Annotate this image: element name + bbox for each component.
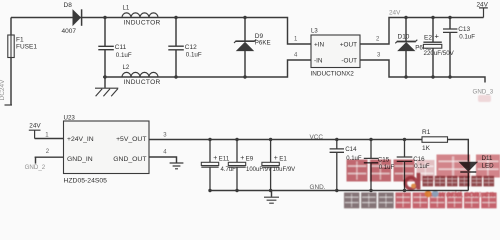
- svg-text:U23: U23: [64, 115, 76, 122]
- svg-text:0.1uF: 0.1uF: [186, 51, 202, 58]
- svg-text:+: +: [240, 155, 244, 162]
- svg-text:world.com.cn: world.com.cn: [439, 189, 494, 199]
- svg-text:E2: E2: [424, 34, 432, 41]
- capacitor C14 0.1uF: [336, 140, 338, 191]
- wire: stub to power ground: [104, 77, 106, 88]
- svg-text:L2: L2: [123, 65, 130, 71]
- junction: [174, 75, 177, 78]
- svg-text:+IN: +IN: [314, 41, 325, 48]
- svg-text:GND_OUT: GND_OUT: [113, 156, 146, 163]
- wire: D9 anode leg: [244, 51, 246, 77]
- diode D8 4007: [73, 10, 81, 26]
- DC-DC module U23 HZD05-24S05: [64, 121, 150, 174]
- svg-text:D10: D10: [398, 34, 410, 41]
- svg-text:INDUCTOR: INDUCTOR: [124, 20, 161, 27]
- wire: E2 lower leg: [432, 48, 434, 77]
- svg-text:INDUCTOR: INDUCTOR: [124, 79, 161, 86]
- svg-text:1K: 1K: [422, 145, 431, 152]
- junction: [174, 16, 177, 19]
- capacitor C16 0.1uF: [404, 140, 406, 191]
- svg-text:E11: E11: [219, 155, 230, 162]
- wire: bottom return rail to filter -IN: [103, 60, 311, 77]
- wire: U23 pin 4 to earth: [149, 157, 177, 163]
- svg-text:10uF/9V: 10uF/9V: [273, 167, 296, 173]
- svg-text:-OUT: -OUT: [341, 57, 357, 64]
- filter module L3 INDUCTIONX2: [311, 35, 360, 68]
- svg-text:4.7uF: 4.7uF: [221, 167, 237, 173]
- capacitor C13 0.1uF: [443, 29, 457, 32]
- wire: input drop to fuse: [10, 18, 12, 36]
- junction: [431, 16, 434, 19]
- wire: LED to GND rail: [467, 173, 469, 191]
- junction: [404, 75, 407, 78]
- svg-text:24V: 24V: [477, 2, 489, 9]
- wire: C13 lower leg: [449, 33, 451, 77]
- junction: [243, 75, 246, 78]
- junction: [404, 16, 407, 19]
- svg-text:L3: L3: [311, 28, 318, 34]
- wire: GND_2 stub: [35, 157, 37, 163]
- svg-text:R1: R1: [422, 129, 431, 136]
- wire: stub to earth: [271, 191, 273, 197]
- svg-text:INDUCTIONX2: INDUCTIONX2: [311, 71, 355, 78]
- svg-text:C12: C12: [185, 44, 197, 51]
- junction: [448, 75, 451, 78]
- wire: D10 cathode leg: [405, 18, 407, 42]
- svg-text:VCC: VCC: [310, 134, 324, 141]
- wire: D9 cathode leg: [244, 18, 246, 42]
- svg-text:24V: 24V: [29, 122, 41, 129]
- svg-text:+: +: [274, 155, 278, 162]
- svg-text:GND.: GND.: [310, 184, 326, 191]
- svg-text:C11: C11: [115, 44, 127, 51]
- junction: [243, 16, 246, 19]
- wire: C11 upper leg: [104, 18, 106, 47]
- svg-text:-IN: -IN: [314, 57, 323, 64]
- svg-text:100uF/9V: 100uF/9V: [246, 167, 272, 173]
- wire: C12 lower leg: [175, 50, 177, 77]
- wire: C12 upper leg: [175, 18, 177, 47]
- wire: filter +OUT to 24V port: [360, 18, 484, 45]
- wire: filter -OUT to GND_3: [360, 60, 485, 83]
- wire: GND_2 to U23 pin 2: [35, 156, 64, 158]
- capacitor C15 0.1uF: [370, 140, 372, 191]
- svg-text:+OUT: +OUT: [340, 41, 357, 48]
- svg-text:+5V_OUT: +5V_OUT: [116, 136, 146, 143]
- wire: E2 upper leg: [432, 18, 434, 43]
- resistor R1 1K: [422, 137, 448, 143]
- wire: GND rail: [210, 190, 468, 192]
- connector pin end tick: [5, 104, 13, 106]
- wire: R1 to LED: [448, 140, 469, 162]
- svg-text:+24V_IN: +24V_IN: [67, 136, 94, 143]
- capacitor C11 0.1uF: [98, 46, 114, 49]
- junction: [103, 75, 106, 78]
- TVS diode D10 P6KE: [397, 41, 416, 43]
- wire: C11 lower leg: [104, 50, 106, 77]
- svg-text:4007: 4007: [62, 28, 77, 35]
- electrolytic capacitor E9 100uF/9V: [236, 140, 238, 191]
- svg-text:C14: C14: [345, 146, 357, 153]
- junction: [103, 16, 106, 19]
- svg-text:GND_2: GND_2: [25, 164, 46, 171]
- svg-text:+: +: [213, 155, 217, 162]
- junction: [431, 75, 434, 78]
- svg-text:DC24V: DC24V: [0, 79, 6, 101]
- earth ground at U23 GND_OUT: [170, 163, 184, 169]
- wire: VCC rail from U23 pin 3: [149, 139, 422, 141]
- wire: top +24V rail from input to filter +IN: [11, 18, 311, 45]
- fuse F1: [8, 35, 14, 58]
- junction: [448, 16, 451, 19]
- svg-text:E1: E1: [279, 155, 287, 162]
- power port 24V (top right): [479, 8, 488, 18]
- svg-text:P6KE: P6KE: [255, 39, 271, 46]
- svg-text:E9: E9: [246, 155, 254, 162]
- wire: D10 anode leg: [405, 51, 407, 77]
- power ground below C11/L2: [95, 87, 118, 89]
- wire: fuse to DC24V connector: [10, 58, 12, 105]
- svg-text:220uF/50V: 220uF/50V: [424, 50, 455, 57]
- electrolytic capacitor E1 10uF/9V: [270, 140, 272, 191]
- svg-text:GND_IN: GND_IN: [67, 156, 93, 163]
- svg-text:D8: D8: [64, 2, 73, 9]
- wire: C13 upper leg: [449, 18, 451, 29]
- wire: 24V to U23 pin 1: [35, 138, 64, 140]
- svg-text:24V: 24V: [389, 10, 401, 17]
- TVS diode D9 P6KE: [236, 40, 255, 42]
- svg-text:0.1uF: 0.1uF: [459, 34, 475, 41]
- svg-text:HZD05-24S05: HZD05-24S05: [64, 178, 108, 185]
- power port 24V (left): [29, 130, 41, 138]
- svg-text:L1: L1: [123, 5, 130, 11]
- svg-text:GND_3: GND_3: [473, 89, 494, 96]
- capacitor C12 0.1uF: [168, 46, 184, 50]
- svg-text:F1: F1: [16, 37, 24, 44]
- svg-text:FUSE1: FUSE1: [16, 44, 37, 51]
- svg-text:C13: C13: [458, 26, 470, 33]
- LED D11: [459, 162, 477, 171]
- inductor L1: [122, 13, 158, 18]
- electrolytic capacitor E2 220uF/50V: [423, 41, 441, 43]
- inductor L2: [122, 72, 158, 77]
- svg-text:+: +: [435, 32, 440, 41]
- svg-text:0.1uF: 0.1uF: [116, 52, 132, 59]
- electrolytic capacitor E11 4.7uF: [209, 140, 211, 191]
